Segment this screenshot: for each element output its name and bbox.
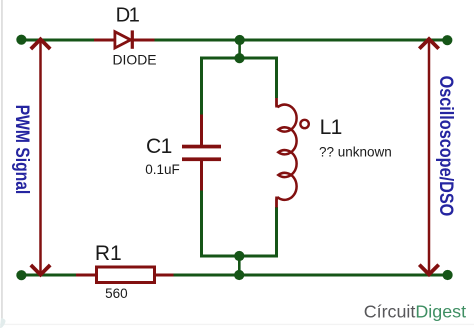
wire: loop left vertical upper green [200,57,203,115]
capacitor C1 lead bottom [200,161,203,191]
capacitor C1 top plate [182,145,221,149]
wire: bottom junction stub [238,256,241,275]
resistor R1 lead left [76,274,97,277]
svg-text:560: 560 [105,286,128,301]
node: loop bottom junction [234,251,244,261]
inductor L1 terminal circle [300,120,308,128]
node: bottom-right terminal dot [443,270,453,280]
svg-text:0.1uF: 0.1uF [145,162,180,177]
inductor L1 lead top [275,98,278,108]
wire: bottom rail [21,274,447,277]
svg-text:PWM Signal: PWM Signal [12,105,34,195]
svg-text:L1: L1 [320,116,342,139]
svg-text:D1: D1 [116,5,140,27]
diode D1 cathode bar [131,30,134,48]
capacitor C1 bottom plate [182,157,221,161]
node: top-right terminal dot [442,35,452,45]
node: top-left terminal dot [16,35,26,45]
node: loop top junction [234,53,244,63]
svg-text:CírcuitDigest: CírcuitDigest [364,302,466,322]
svg-text:?? unknown: ?? unknown [319,145,392,160]
wire: top rail [21,39,447,42]
svg-text:C1: C1 [146,135,172,158]
diode D1 [115,32,131,48]
node: bottom-left terminal dot [16,270,26,280]
left probe arrow up [31,39,50,49]
bottom page rule [0,324,474,325]
wire: loop right vertical lower green [275,207,278,258]
wire: right probe line [428,41,431,273]
node: top rail junction [235,35,245,45]
wire: left probe line [39,42,42,273]
wire: top junction stub [238,40,241,58]
node: bottom rail junction [234,270,244,280]
svg-text:DIODE: DIODE [113,52,157,68]
resistor R1 lead right [154,274,174,277]
svg-text:Oscilloscope/DSO: Oscilloscope/DSO [435,76,457,217]
bottom-left teal dash [0,318,6,328]
right probe arrow up [419,39,438,49]
left probe arrow down [31,265,50,275]
wire: loop left vertical lower green [200,190,203,258]
wire: loop top horizontal [202,57,277,60]
svg-text:R1: R1 [95,242,122,265]
left page border line [1,0,3,324]
inductor L1 coil [277,98,297,207]
capacitor C1 lead top [200,115,203,146]
resistor R1 [97,267,155,283]
wire: loop right vertical upper green [275,57,278,99]
inductor L1 lead bottom [275,197,278,208]
right probe arrow down [419,265,438,275]
wire: loop bottom horizontal [202,255,277,258]
diode D1 lead right [134,39,155,42]
diode D1 lead left [94,39,115,42]
